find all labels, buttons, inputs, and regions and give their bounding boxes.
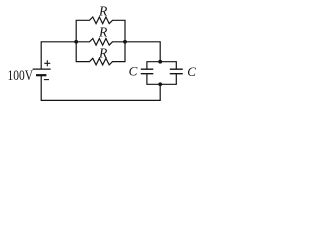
battery V1: short thick negative plate (36, 74, 46, 76)
svg-text:R: R (98, 4, 108, 19)
svg-text:R: R (98, 25, 108, 40)
node: junction dot capacitor bottom bus (158, 82, 162, 86)
svg-text:C: C (187, 64, 196, 79)
wire: negative rail from battery down, right along bottom, up to capacitor bottom bus (41, 75, 160, 100)
resistor ring: left bus, R1 top zigzag branch, right bus, R3 bottom zigzag branch (76, 17, 125, 65)
svg-text:C: C (129, 63, 138, 78)
battery + polarity sign (44, 60, 50, 66)
svg-text:100V: 100V (8, 68, 34, 84)
battery V1: long thin positive plate (33, 68, 51, 70)
capacitor C2 plates (170, 69, 183, 74)
node: junction dot right bus / top rail (123, 40, 127, 44)
node: junction dot left bus / top rail (74, 40, 78, 44)
battery - polarity sign (44, 79, 49, 81)
capacitor bottom bus with C1/C2 lower leads (147, 74, 176, 85)
wire: positive rail from battery up, right through resistor R2 (middle zigzag), to capacitor feed drop (41, 39, 160, 70)
capacitor C1 plates (141, 69, 154, 74)
svg-text:R: R (98, 45, 108, 60)
capacitor top bus with C1/C2 upper leads (147, 62, 176, 69)
node: junction dot capacitor top bus (158, 60, 162, 64)
